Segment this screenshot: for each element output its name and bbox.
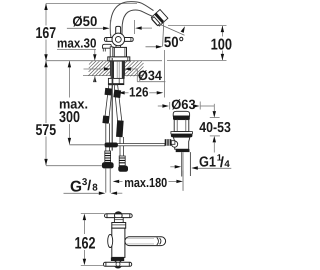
svg-text:max.180: max.180 — [124, 175, 167, 190]
plan view top handle bar — [105, 214, 133, 218]
dimension 575 line — [45, 61, 47, 166]
svg-text:575: 575 — [36, 122, 57, 139]
dimension 167 arrow up — [44, 4, 47, 11]
max.180 right arrow — [169, 180, 177, 182]
dimension 100 arrow down — [221, 54, 224, 61]
G3/8 arrow right-pointing — [99, 192, 106, 195]
waste lower nut band — [176, 149, 190, 152]
left hose upper fitting — [105, 88, 113, 96]
plan view: 162 bottom extension line — [81, 264, 103, 266]
left tail tube below nut — [106, 168, 110, 192]
Ø63 leader left — [158, 105, 163, 107]
svg-text:100: 100 — [211, 36, 233, 53]
Ø63 right arrow — [193, 104, 200, 107]
50 degree arc arrow — [181, 26, 187, 33]
left hose nut — [102, 162, 114, 168]
spout tip arcs — [157, 237, 161, 245]
dimension 167 vertical line — [45, 4, 47, 61]
G3/8 leader underline — [64, 192, 99, 194]
Ø63 tail line to 40-53 — [201, 105, 215, 107]
deck hole right edge — [124, 61, 126, 76]
pop-up rod knob at body — [103, 44, 112, 48]
Ø34 leader right segment — [131, 69, 166, 82]
aerator on spout tip — [151, 9, 168, 26]
waste side knurled knob — [165, 139, 172, 146]
50 degree inclined line — [160, 24, 185, 35]
162 arrow up — [83, 214, 86, 221]
dimension 40-53 line top — [213, 104, 215, 112]
svg-text:126: 126 — [129, 85, 149, 100]
faucet base flange — [108, 57, 130, 61]
right hose lower fitting — [116, 120, 124, 137]
svg-text:40-53: 40-53 — [199, 120, 231, 136]
faucet valve stem under hub — [116, 45, 120, 52]
dimension 100 line — [221, 26, 223, 61]
extension line at spout tip projection — [163, 50, 165, 98]
svg-text:300: 300 — [59, 109, 80, 126]
svg-text:G: G — [70, 178, 82, 195]
cross handle horizontal bar — [104, 38, 133, 42]
Ø34 arrow right-pointing at hole — [104, 67, 111, 70]
svg-text:Ø50: Ø50 — [72, 13, 97, 29]
dimension max.180 left arrow — [113, 180, 120, 183]
deck hole left edge — [109, 61, 111, 76]
svg-text:8: 8 — [92, 183, 98, 194]
dimension max.300 line — [68, 61, 70, 144]
deck top extension line right — [167, 59, 227, 61]
G3/8 arrow left-pointing — [111, 192, 118, 195]
max.300 arrow up — [68, 61, 71, 68]
deck hatching right of hole — [125, 61, 144, 76]
G1 1/4 arrow to pipe — [191, 166, 198, 169]
max.30 arrow down to deck top — [93, 54, 96, 61]
plan view: 162 top extension line — [81, 213, 105, 215]
plan view left knob ellipse — [108, 234, 113, 247]
plan view bottom hub — [114, 260, 122, 268]
threaded shank through deck — [111, 61, 124, 78]
dimension 575 bottom extension line — [46, 165, 102, 167]
waste body — [173, 137, 190, 149]
dimension 126 left arrow — [118, 91, 125, 94]
dimension 167 arrow down — [44, 54, 47, 61]
40-53 top extension tick — [210, 117, 220, 119]
dimension Ø34 leader left segment — [84, 68, 105, 70]
right supply hose — [114, 85, 122, 121]
Ø34 arrow left-pointing at hole — [124, 67, 130, 70]
G1 1/4 left arrow — [170, 166, 175, 168]
pop-up vertical rod — [111, 58, 113, 151]
svg-text:Ø63: Ø63 — [171, 97, 196, 112]
pop-up rod upper — [110, 47, 113, 57]
40-53 bottom arrow up — [213, 136, 216, 143]
max.30 arrow up to deck bottom — [93, 76, 96, 83]
plan view bottom handle bar — [103, 262, 131, 266]
dimension 167 top extension line — [46, 3, 137, 5]
G1 1/4 underline — [197, 167, 232, 169]
svg-text:50°: 50° — [164, 35, 184, 51]
deck bottom line — [83, 75, 144, 77]
svg-text:162: 162 — [75, 234, 96, 252]
right hose threaded end — [119, 156, 125, 166]
plan view shoulder — [112, 223, 126, 229]
dimension 100 arrow up — [221, 26, 224, 32]
dimension 126 right arrow — [149, 92, 156, 94]
pop-up tee joint — [105, 143, 118, 148]
Ø50 leader underline and arrow — [67, 27, 104, 29]
deck top line — [46, 60, 162, 62]
40-53 bottom extension tick — [210, 135, 220, 137]
plan view spout tube — [125, 237, 166, 246]
svg-text:167: 167 — [36, 25, 57, 42]
waste O-ring band — [171, 134, 193, 137]
waste knob stub — [171, 141, 175, 145]
162 arrow down — [83, 259, 86, 266]
svg-text:max.30: max.30 — [57, 36, 97, 51]
right hose thin tube — [120, 137, 123, 156]
mounting nut — [108, 78, 123, 84]
spout arc inner edge — [122, 10, 152, 40]
plan view body — [112, 228, 125, 257]
Ø50 left extension line — [109, 20, 111, 34]
pop-up waste dome — [173, 111, 189, 116]
waste dome dark band — [173, 116, 190, 120]
dimension 575 arrow up — [44, 61, 47, 67]
svg-text:/: / — [87, 178, 91, 194]
Ø63 left extension line — [169, 102, 171, 110]
plan view top hub — [115, 212, 123, 220]
waste rod ball joint — [172, 141, 178, 147]
plan view body bottom band — [111, 257, 124, 261]
50 degree horizontal arrow — [146, 46, 157, 48]
Ø63 right extension line — [199, 102, 201, 110]
pop-up horizontal rod — [69, 144, 104, 146]
left hose threaded end — [105, 151, 111, 162]
waste upper cylinder — [174, 120, 189, 132]
cross handle vertical post — [116, 26, 121, 37]
left hose thin tube — [106, 123, 110, 151]
dimension 162 line — [83, 220, 85, 259]
dimension 575 arrow down — [44, 159, 47, 166]
Ø50 right extension line — [134, 20, 136, 34]
max.180 right extension line — [182, 171, 184, 191]
left hose lower fitting — [102, 115, 109, 123]
spout tube inner lines — [126, 239, 154, 244]
aerator tip extension line — [168, 25, 227, 27]
40-53 line bottom — [213, 142, 215, 152]
waste tailpipe — [182, 152, 191, 176]
right hose nut — [118, 166, 128, 172]
right hose upper fitting — [113, 90, 121, 98]
handle hub inner circle — [115, 37, 121, 43]
left supply hose — [104, 85, 112, 123]
Ø50 right arrow — [135, 26, 142, 29]
max.30 leader underline — [57, 49, 96, 54]
handle hub circle — [112, 33, 125, 46]
spout arc outer edge — [110, 2, 153, 40]
deck hatching left of hole — [88, 61, 110, 76]
svg-text:Ø34: Ø34 — [138, 68, 162, 83]
faucet body trunk — [113, 47, 127, 57]
waste collar — [171, 132, 193, 134]
50 degree construction vertical line — [163, 21, 164, 47]
max.300 arrow down — [68, 138, 71, 145]
plan view neck — [114, 218, 123, 223]
